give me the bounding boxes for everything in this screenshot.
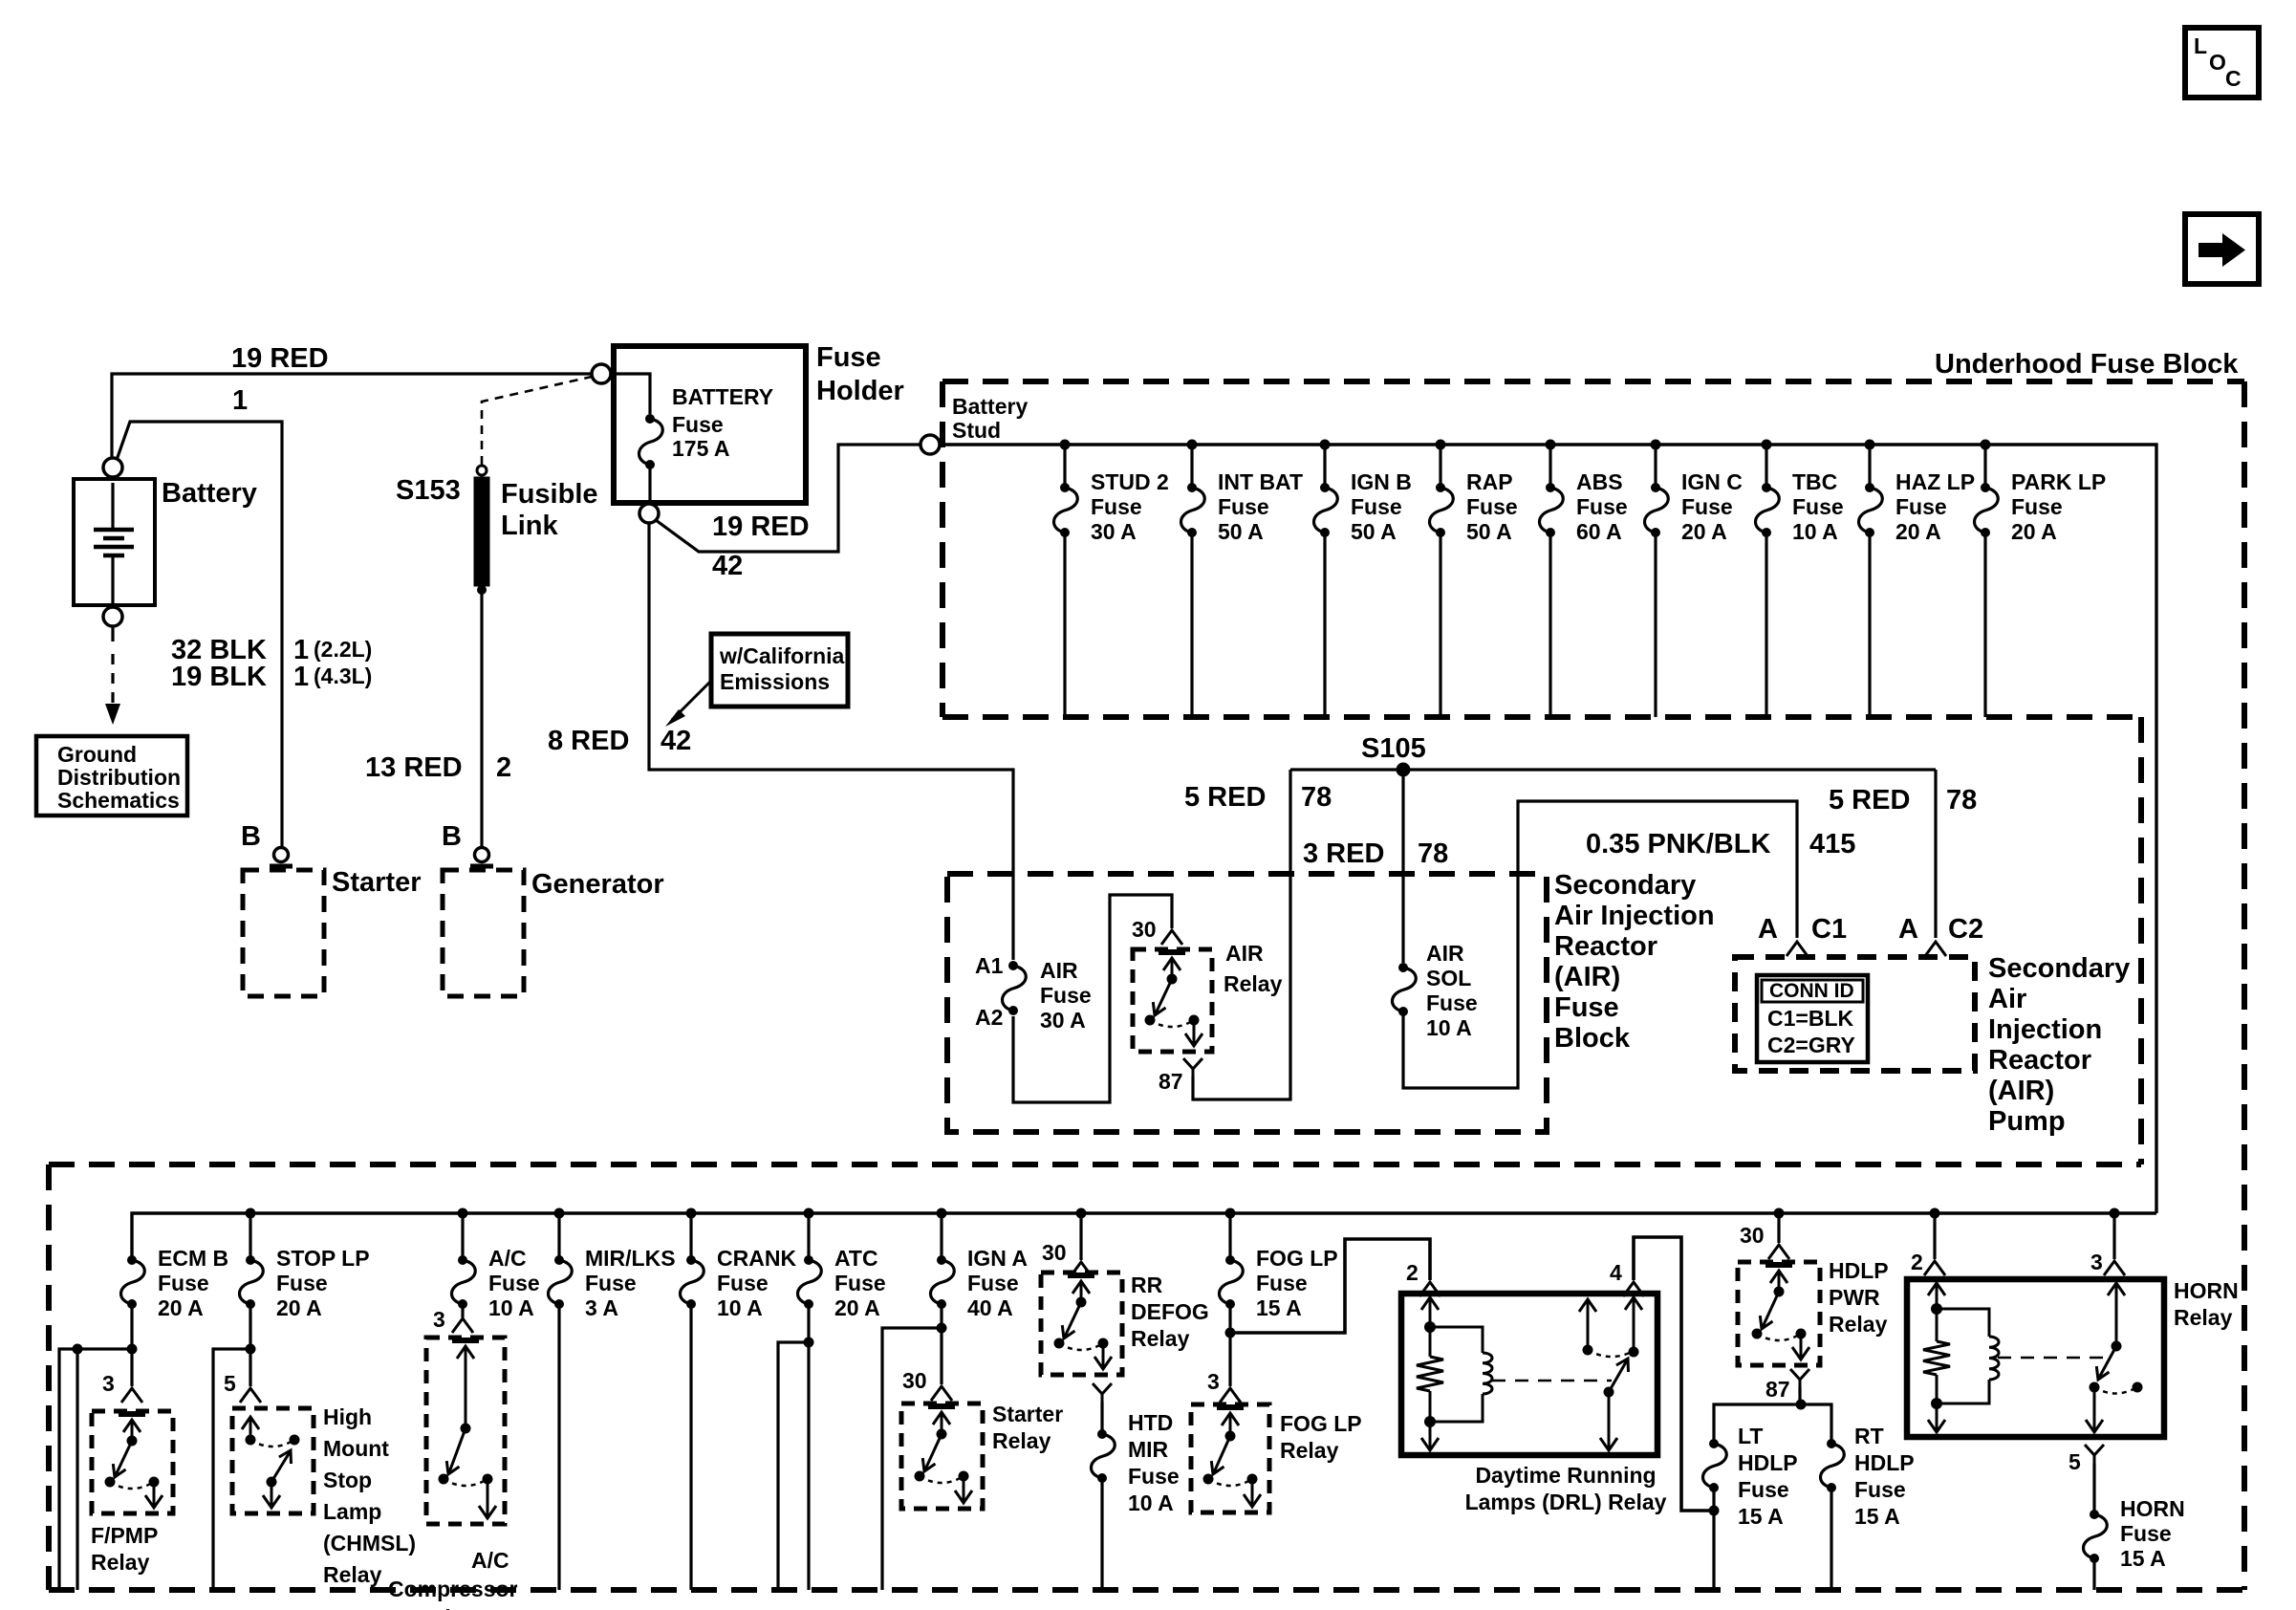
svg-text:1: 1 [293,662,309,692]
svg-text:C2: C2 [1948,914,1983,945]
svg-text:Relay: Relay [1131,1326,1190,1351]
svg-text:IGN C: IGN C [1681,469,1743,494]
svg-text:87: 87 [1159,1069,1183,1094]
wire AIR fuse to relay 30 [1013,895,1172,1102]
fuse PARK LP 20 A [1981,483,1990,492]
CONN ID table [1757,975,1868,1062]
HORN resistor [1936,1309,1939,1341]
svg-text:CRANK: CRANK [717,1246,796,1271]
wire bus to ATC fuse [807,1213,810,1256]
wire bus to HDLP PWR [1777,1213,1780,1243]
bottom box border top [49,1162,2141,1167]
DRL resistor [1429,1327,1432,1357]
svg-text:HORN: HORN [2120,1496,2185,1521]
svg-text:30: 30 [902,1368,927,1393]
svg-text:Relay: Relay [1224,971,1283,996]
svg-text:Starter: Starter [332,867,422,898]
wire bus to HAZ LP fuse [1868,445,1871,484]
svg-text:MIR/LKS: MIR/LKS [585,1246,676,1271]
node bus FOG LP [1225,1208,1236,1219]
node bus MIR/LKS [554,1208,565,1219]
wire IGN C fuse down [1654,533,1657,717]
svg-text:Fuse: Fuse [816,342,881,373]
arrow symbol box [2185,214,2259,284]
HORN coil output arrow [1936,1403,1939,1430]
underhood border step vertical [2138,717,2144,1164]
DRL actuation dashed link [1492,1380,1612,1382]
top bus wire [940,445,2156,1213]
wire HDLP 87 down [1798,1387,1801,1404]
svg-text:20 A: 20 A [276,1295,322,1320]
wire bus to CRANK fuse [689,1213,692,1256]
svg-text:FOG LP: FOG LP [1280,1411,1362,1436]
svg-text:5 RED: 5 RED [1829,785,1910,816]
svg-text:HTD: HTD [1128,1410,1173,1435]
svg-text:30 A: 30 A [1091,519,1137,544]
svg-text:C: C [2225,66,2242,91]
fuse FOG LP 15 A [1225,1255,1235,1265]
connector 5 CHMSL [240,1388,261,1403]
AIR relay [1133,949,1212,1052]
underhood fuse block border left [940,381,945,717]
svg-text:2: 2 [496,752,511,783]
svg-text:SOL: SOL [1426,966,1471,990]
wire HTD MIR down [1100,1478,1103,1590]
svg-text:78: 78 [1418,838,1448,869]
wire HAZ LP fuse down [1868,533,1871,717]
svg-text:50 A: 50 A [1466,519,1512,544]
wire bus to RAP fuse [1439,445,1441,484]
wire FOG LP fuse down [1228,1304,1231,1386]
svg-text:LT: LT [1738,1424,1763,1448]
svg-text:15 A: 15 A [1738,1504,1784,1529]
fuse HTD MIR 10 A [1097,1429,1107,1439]
svg-text:Compressor: Compressor [388,1577,518,1601]
battery B+ terminal [103,458,122,477]
svg-text:w/California: w/California [719,643,845,668]
svg-text:Link: Link [501,511,558,541]
fuse HAZ LP 20 A [1865,483,1874,492]
wire IGN A fuse down [940,1304,942,1384]
svg-text:Emissions: Emissions [720,669,830,694]
svg-text:A: A [1758,914,1778,945]
fuse LT HDLP 15 A [1709,1439,1719,1448]
svg-text:Lamps (DRL) Relay: Lamps (DRL) Relay [1465,1490,1667,1514]
svg-text:ECM B: ECM B [158,1246,228,1271]
svg-text:Lamp: Lamp [323,1499,381,1524]
wire FOG LP to DRL 2 [1230,1239,1430,1333]
DRL switch arm [1604,1387,1614,1398]
svg-text:A/C: A/C [488,1246,527,1271]
svg-text:Relay: Relay [91,1550,150,1575]
svg-text:Fuse: Fuse [717,1271,769,1295]
svg-text:Fuse: Fuse [1128,1464,1180,1489]
starter relay [901,1403,983,1509]
svg-text:Fuse: Fuse [1466,494,1518,519]
svg-text:S105: S105 [1361,733,1426,764]
svg-text:10 A: 10 A [1128,1490,1174,1515]
svg-text:4: 4 [1610,1260,1622,1285]
fuse TBC 10 A [1762,483,1771,492]
HORN coil bottom node [1931,1398,1942,1409]
wire ECM B branch 2 down [76,1349,78,1590]
wire 2 fusible link to generator [480,593,483,847]
HORN relay box [1907,1279,2164,1437]
svg-text:20 A: 20 A [834,1295,880,1320]
wire TBC fuse down [1765,533,1767,717]
fuse STUD 2 30 A [1060,483,1070,492]
HORN contact arc [2094,1387,2137,1394]
wire bus to FOG LP fuse [1228,1213,1231,1256]
wire INT BAT fuse down [1190,533,1193,717]
wire bus to MIR/LKS fuse [557,1213,560,1256]
LOC symbol box [2185,28,2259,98]
svg-text:Fuse: Fuse [1792,494,1844,519]
AIR pump box [1735,957,1975,1071]
wire bus to HORN 3 [2112,1213,2115,1259]
svg-text:10 A: 10 A [488,1295,534,1320]
svg-text:STOP LP: STOP LP [276,1246,370,1271]
node bus RR DEFOG [1076,1208,1087,1219]
connector C2 [1925,942,1946,956]
wire bus to INT BAT fuse [1190,445,1193,484]
node ECM B branch 2 [73,1344,83,1355]
svg-text:Fuse: Fuse [488,1271,540,1295]
wire ECM B branch left [59,1349,132,1590]
connector 3 F/PMP [121,1388,142,1403]
node bus junction RAP [1436,440,1446,450]
svg-text:RT: RT [1854,1424,1884,1448]
svg-text:20 A: 20 A [1681,519,1727,544]
HORN floating contact [2133,1382,2143,1393]
node bus CRANK [686,1208,697,1219]
wire inside fuse holder [612,374,650,414]
node bus HORN 2 [1930,1208,1940,1219]
svg-text:Relay: Relay [323,1562,382,1587]
svg-text:Air Injection: Air Injection [1554,901,1715,931]
AIR fuse block box [947,874,1547,1132]
wire bus to STUD 2 fuse [1063,445,1066,484]
svg-text:Fuse: Fuse [1554,992,1619,1023]
svg-text:Fuse: Fuse [1091,494,1142,519]
svg-text:42: 42 [712,551,743,581]
svg-text:Distribution: Distribution [57,765,181,790]
fuse ATC 20 A [804,1255,813,1265]
starter box [243,870,324,996]
HORN pin3 contact [2115,1284,2118,1346]
svg-text:19 BLK: 19 BLK [171,662,267,692]
svg-text:415: 415 [1809,829,1855,859]
connector 2 DRL [1419,1282,1440,1296]
node bus junction TBC [1762,440,1772,450]
svg-text:30: 30 [1132,917,1157,942]
underhood fuse block border top [942,379,2244,384]
node LT HDLP junction 4 [1709,1506,1720,1516]
svg-text:TBC: TBC [1792,469,1837,494]
fuse AIR 30 A [1008,961,1018,970]
DRL floating contact [1587,1300,1590,1350]
node bus junction ABS [1546,440,1556,450]
wire 19 RED 42 to battery stud [656,445,920,552]
bottom bus wire [132,1213,2156,1256]
wire bus to RR DEFOG relay [1079,1213,1082,1260]
svg-text:Battery: Battery [952,394,1028,419]
DRL pin2 contact [1429,1298,1432,1327]
wire RAP fuse down [1439,533,1441,717]
svg-text:High: High [323,1404,372,1429]
fuse AIR SOL 10 A [1398,963,1408,972]
svg-text:AIR: AIR [1426,941,1464,966]
svg-text:3: 3 [102,1371,115,1396]
HORN coil branch [1937,1309,1989,1337]
svg-text:Fuse: Fuse [2120,1521,2172,1546]
battery B- terminal [103,607,122,626]
svg-text:RAP: RAP [1466,469,1513,494]
svg-text:Relay: Relay [1280,1438,1339,1463]
battery box [74,479,155,605]
node bus HORN 3 [2110,1208,2120,1219]
connector 30 HDLP PWR [1768,1245,1789,1259]
svg-text:Stud: Stud [952,418,1001,443]
DRL relay box [1401,1294,1657,1455]
svg-text:15 A: 15 A [1854,1504,1900,1529]
svg-text:5: 5 [224,1371,236,1396]
svg-text:Fuse: Fuse [2011,494,2063,519]
connector 4 DRL [1623,1282,1644,1296]
svg-text:Fuse: Fuse [158,1271,209,1295]
svg-text:(AIR): (AIR) [1554,962,1620,992]
svg-text:20 A: 20 A [1895,519,1941,544]
svg-text:Underhood Fuse Block: Underhood Fuse Block [1935,349,2239,380]
node HDLP 87 [1796,1400,1807,1410]
svg-text:87: 87 [1765,1377,1790,1402]
arrow symbol [2199,243,2224,257]
node bus ATC [804,1208,814,1219]
svg-text:A2: A2 [975,1005,1003,1030]
svg-text:20 A: 20 A [2011,519,2057,544]
svg-text:3: 3 [1207,1369,1220,1394]
node bus A/C [458,1208,468,1219]
generator B terminal [475,848,489,862]
svg-text:20 A: 20 A [158,1295,204,1320]
wire 19 RED battery to fuse holder [112,374,591,459]
ground arrowhead [105,704,120,725]
svg-text:O: O [2209,50,2226,75]
svg-text:50 A: 50 A [1351,519,1397,544]
svg-text:5: 5 [2069,1449,2081,1474]
svg-text:CONN ID: CONN ID [1769,980,1854,1002]
connector 87 HDLP PWR out [1790,1369,1809,1380]
svg-text:Battery: Battery [162,478,257,509]
node bus junction STUD 2 [1060,440,1071,450]
svg-text:ATC: ATC [834,1246,878,1271]
svg-text:2: 2 [1406,1260,1419,1285]
F/PMP relay [92,1411,173,1513]
svg-text:42: 42 [661,726,691,756]
wire HDLP feed horizontal [1714,1404,1831,1444]
svg-text:Relay: Relay [417,1605,476,1610]
svg-text:HDLP: HDLP [1829,1258,1889,1283]
HORN actuation dashed link [1998,1357,2103,1360]
fuse MIR/LKS 3 A [554,1255,564,1265]
wire bus to STOP LP fuse [249,1213,251,1256]
connector 3 HORN [2104,1261,2125,1275]
svg-text:60 A: 60 A [1576,519,1622,544]
RR DEFOG relay [1041,1273,1122,1375]
DRL switch output arrow [1608,1392,1611,1448]
fuse ECM B 20 A [127,1255,137,1265]
svg-text:78: 78 [1301,782,1332,813]
svg-text:10 A: 10 A [1426,1015,1472,1040]
svg-text:Reactor: Reactor [1554,931,1657,962]
svg-text:0.35 PNK/BLK: 0.35 PNK/BLK [1586,829,1770,859]
node ECM B branch [127,1344,138,1355]
battery cell symbol [111,483,114,530]
wire bus to IGN B fuse [1323,445,1326,484]
svg-text:Air: Air [1988,984,2026,1014]
svg-text:Fuse: Fuse [276,1271,328,1295]
wire A/C fuse down [461,1304,464,1317]
svg-text:19 RED: 19 RED [712,511,810,542]
underhood fuse block border bottom of fuse row [942,714,2141,720]
svg-text:Fuse: Fuse [1738,1477,1789,1502]
svg-text:AIR: AIR [1225,941,1264,966]
svg-text:30: 30 [1042,1240,1067,1265]
wire CRANK down [689,1304,692,1590]
svg-text:3 A: 3 A [585,1295,618,1320]
wire HORN fuse down [2092,1558,2095,1590]
DRL coil output arrow [1429,1422,1432,1448]
svg-text:A1: A1 [975,953,1004,978]
svg-text:C2=GRY: C2=GRY [1767,1033,1855,1057]
fuse HORN 15 A [2090,1510,2099,1519]
fuse IGN C 20 A [1651,483,1660,492]
svg-text:Fuse: Fuse [1895,494,1947,519]
svg-text:HDLP: HDLP [1738,1450,1798,1475]
connector 2 HORN [1924,1261,1945,1275]
underhood fuse block border right [2242,381,2247,1590]
svg-text:3: 3 [433,1307,445,1332]
svg-text:30 A: 30 A [1040,1008,1086,1033]
wire ABS fuse down [1549,533,1551,717]
svg-text:IGN A: IGN A [967,1246,1028,1271]
fuse IGN A 40 A [937,1255,946,1265]
node bus HDLP PWR [1774,1208,1785,1219]
svg-text:8 RED: 8 RED [548,726,629,756]
svg-text:10 A: 10 A [1792,519,1838,544]
wire STOP LP branch left [213,1349,250,1590]
DRL coil branch [1430,1327,1483,1353]
wire bus to A/C fuse [461,1213,464,1256]
node bus junction HAZ LP [1865,440,1875,450]
wire bus to HORN 2 [1933,1213,1936,1259]
svg-text:Daytime Running: Daytime Running [1475,1463,1656,1488]
svg-text:Fuse: Fuse [585,1271,637,1295]
svg-text:Generator: Generator [531,869,664,900]
wire ECM B fuse down [130,1304,133,1386]
wire RT HDLP down [1830,1488,1832,1590]
svg-text:A/C: A/C [471,1548,509,1573]
node STOP LP branch [246,1344,256,1355]
svg-text:175 A: 175 A [672,436,730,461]
svg-text:AIR: AIR [1040,958,1078,983]
svg-text:INT BAT: INT BAT [1218,469,1303,494]
svg-text:Fuse: Fuse [672,412,724,437]
HORN pin2 contact [1936,1284,1939,1309]
wire MIR/LKS down [557,1304,560,1590]
svg-text:C1=BLK: C1=BLK [1767,1006,1853,1031]
wire battery ground dashed [111,626,114,642]
svg-text:19 RED: 19 RED [231,343,329,374]
node bus STOP LP [246,1208,256,1219]
fuse RT HDLP 15 A [1827,1439,1836,1448]
wire 5 RED 78 right to C2 [1934,770,1937,938]
svg-text:Reactor: Reactor [1988,1045,2091,1076]
svg-text:78: 78 [1946,785,1977,816]
svg-text:B: B [442,821,462,852]
battery stud connector [921,435,940,454]
svg-text:Schematics: Schematics [57,788,180,813]
svg-text:F/PMP: F/PMP [91,1523,158,1548]
svg-text:BATTERY: BATTERY [672,384,773,409]
wire STUD 2 fuse down [1063,533,1066,717]
bottom box border left [46,1164,52,1590]
svg-text:Fuse: Fuse [834,1271,886,1295]
wire IGN B fuse down [1323,533,1326,717]
svg-text:IGN B: IGN B [1351,469,1412,494]
wire RR DEFOG to HTD MIR fuse [1100,1402,1103,1430]
fuse A/C 10 A [458,1255,467,1265]
wire ATC down [807,1304,810,1590]
wire bus to ABS fuse [1549,445,1551,484]
DRL coil bottom node [1424,1416,1436,1427]
svg-text:FOG LP: FOG LP [1256,1246,1338,1271]
wire DRL 4 loop [1634,1237,1712,1511]
svg-text:2: 2 [1911,1250,1923,1274]
svg-text:HDLP: HDLP [1854,1450,1915,1475]
svg-text:(4.3L): (4.3L) [314,664,372,688]
svg-text:1: 1 [232,385,248,416]
wire bus to PARK LP fuse [1983,445,1986,484]
svg-text:Stop: Stop [323,1468,372,1492]
generator box [443,870,524,996]
HDLP PWR relay [1738,1262,1820,1365]
svg-text:Fuse: Fuse [1040,983,1092,1008]
wire fusible link dashed [482,377,592,465]
svg-text:Secondary: Secondary [1988,953,2130,984]
svg-text:S153: S153 [396,475,461,506]
svg-text:Secondary: Secondary [1554,870,1696,901]
svg-text:A: A [1898,914,1918,945]
svg-text:HORN: HORN [2174,1278,2239,1303]
wire bus to IGN C fuse [1654,445,1657,484]
svg-text:Mount: Mount [323,1436,389,1461]
w/California Emissions box [711,634,848,707]
wire 5 RED 78 left to AIR relay 87 [1193,770,1290,1099]
svg-text:5 RED: 5 RED [1184,782,1266,813]
connector 30 AIR relay [1161,930,1182,945]
node bus junction PARK LP [1981,440,1991,450]
connector 30 RR DEFOG [1071,1262,1092,1276]
wire 3 RED 78 S105 to AIR SOL fuse [1401,776,1404,963]
A/C compressor relay [426,1338,505,1524]
connector 3 A/C relay [452,1318,473,1333]
svg-text:40 A: 40 A [967,1295,1013,1320]
svg-text:Ground: Ground [57,742,137,767]
wire bus to TBC fuse [1765,445,1767,484]
wire LT HDLP down [1712,1488,1715,1590]
svg-text:PARK LP: PARK LP [2011,469,2106,494]
